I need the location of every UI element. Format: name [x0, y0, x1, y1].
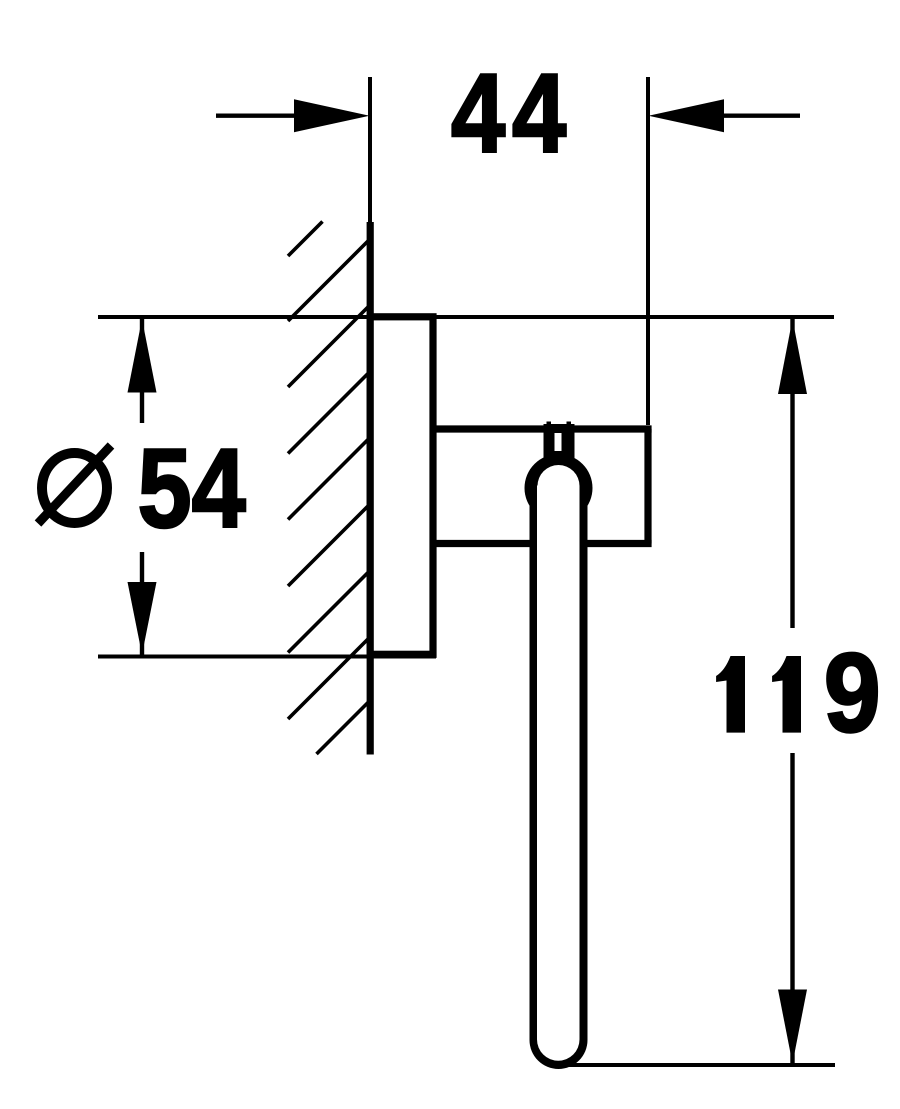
label diameter symbol	[38, 446, 111, 524]
arm top edge	[433, 425, 652, 432]
svg-text:4: 4	[451, 51, 505, 176]
dimension 44 right arrowhead	[649, 99, 725, 132]
wall plate (escutcheon)	[370, 317, 433, 655]
dimension 119 line lower segment	[790, 753, 794, 1063]
pivot neck right nub	[567, 422, 572, 427]
dimension 119 line upper segment	[790, 319, 794, 628]
pivot neck left nub	[547, 422, 552, 427]
label 119 digit 1 (second)	[772, 656, 801, 733]
holder pivot inner bore (white)	[538, 465, 580, 507]
dimension 44 left arrowhead	[294, 99, 370, 132]
svg-text:4: 4	[512, 51, 566, 176]
pivot pin slot (white)	[555, 433, 562, 451]
dimension 44 right arrow shaft	[723, 113, 800, 117]
pivot neck	[544, 424, 575, 470]
dimension 54 line lower segment	[140, 552, 144, 655]
dimension 119 up arrowhead	[778, 319, 807, 394]
holder bar inner slot (white)	[537, 486, 580, 1061]
svg-text:54: 54	[137, 426, 245, 551]
dimension 54 line upper segment	[140, 319, 144, 423]
arm bottom edge	[433, 540, 652, 547]
holder pivot boss (outer circle)	[525, 454, 593, 522]
wall hatching	[288, 222, 370, 755]
extension line bottom-left (lower datum of 54)	[98, 655, 436, 659]
extension line 44 left	[368, 77, 372, 224]
extension line top (upper datum)	[98, 315, 834, 319]
dimension 44 left arrow shaft	[216, 113, 300, 117]
dimension 54 down arrowhead	[128, 582, 157, 655]
label 119 digit 1 (first)	[716, 656, 745, 733]
dimension 54 up arrowhead	[128, 319, 157, 393]
svg-text:9: 9	[824, 631, 881, 756]
extension line bottom-right (lower datum of 119)	[561, 1063, 835, 1067]
extension line 44 right	[646, 77, 650, 425]
holder bar outer	[530, 488, 588, 1069]
wall surface line	[367, 222, 374, 755]
dimension 119 down arrowhead	[778, 990, 807, 1064]
arm right edge	[644, 429, 651, 544]
